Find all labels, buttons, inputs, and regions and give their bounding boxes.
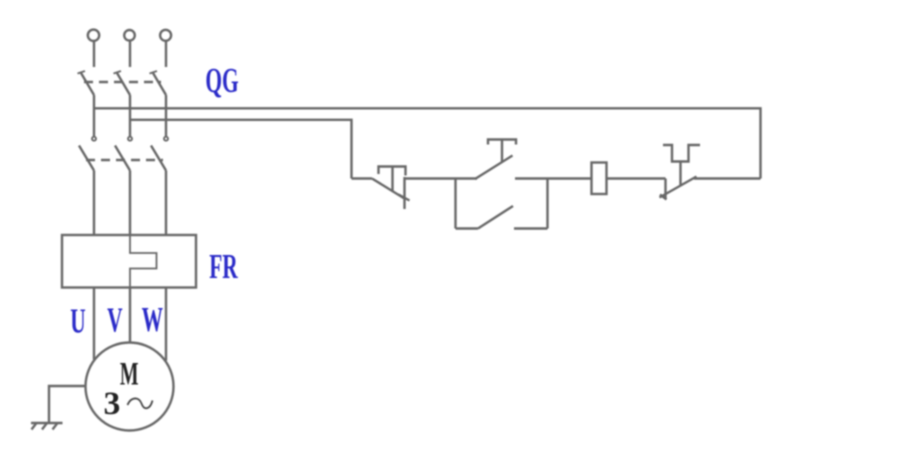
ground symbol (31, 423, 63, 430)
wire L1 stem (93, 41, 95, 67)
wire control left (352, 177, 373, 179)
coil KM (592, 163, 607, 195)
wire rail 2 (L2 tap to control left leg) (130, 120, 352, 179)
wire KM2 to FR (129, 171, 131, 236)
wire SB1 to right leg (694, 177, 761, 179)
terminal L2 (124, 30, 135, 41)
wire node to coil (548, 177, 592, 179)
wire V (129, 288, 131, 343)
contactor KM pole 1 (79, 137, 96, 171)
wire L2 to contactor (129, 95, 131, 136)
svg-text:QG: QG (205, 62, 238, 100)
stop button SB1 (NC) (660, 145, 701, 200)
start button SB2 (NO) (475, 140, 516, 180)
branch left leg wire (454, 179, 456, 229)
wire KM3 to FR (165, 171, 167, 236)
terminal L1 (88, 30, 99, 41)
contactor KM pole 2 (115, 137, 132, 171)
terminal L3 (160, 30, 171, 41)
KM auxiliary contact (NO, self hold) (456, 206, 548, 229)
thermal relay FR box (62, 235, 196, 288)
svg-text:3: 3 (103, 385, 120, 422)
svg-text:V: V (107, 301, 123, 339)
svg-text:W: W (142, 301, 164, 339)
ground wire (49, 386, 86, 423)
wire rail 1 (L1 tap to control right leg) (94, 108, 761, 178)
svg-text:FR: FR (209, 248, 238, 286)
KM linkage (dashed) (86, 159, 163, 161)
wire SB2 to node (515, 177, 548, 179)
FR heater element (130, 235, 157, 288)
svg-text:M: M (120, 355, 139, 391)
branch right leg wire (546, 179, 548, 229)
QG linkage (dashed) (84, 81, 161, 83)
FR NC contact (372, 167, 410, 210)
switch QG pole 1 blade (78, 71, 95, 95)
wire FR contact to branch (405, 177, 478, 179)
wire L1 to contactor (93, 95, 95, 136)
contactor KM pole 3 (151, 137, 168, 171)
motor M circle (86, 343, 174, 431)
label tilde (3-phase symbol) (128, 398, 153, 408)
wire U (93, 288, 95, 360)
wire L2 stem (129, 41, 131, 67)
wire KM1 to FR (93, 171, 95, 236)
wire L3 to contactor (165, 95, 167, 136)
switch QG pole 2 blade (114, 71, 131, 95)
wire L3 stem (165, 41, 167, 67)
wire W (165, 288, 167, 361)
switch QG pole 3 blade (150, 71, 167, 95)
wire coil to SB1 (607, 177, 666, 179)
svg-text:U: U (70, 302, 85, 340)
